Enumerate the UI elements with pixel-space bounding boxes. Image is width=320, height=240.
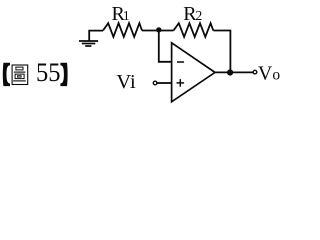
node junction B (output node)	[227, 69, 233, 75]
terminal Vi	[153, 81, 157, 85]
wire R2 to feedback corner	[213, 31, 230, 73]
wire R1 to R2	[142, 30, 174, 32]
wire Vi to plus input	[157, 82, 171, 84]
svg-text:55: 55	[36, 58, 61, 87]
output wire	[215, 71, 253, 73]
resistor R1	[103, 23, 142, 37]
svg-text:R2: R2	[183, 3, 202, 25]
wire inverting input	[159, 31, 172, 62]
ground	[79, 31, 103, 46]
svg-text:Vo: Vo	[258, 62, 280, 84]
op-amp U1	[172, 43, 215, 102]
svg-text:R1: R1	[112, 3, 130, 25]
terminal Vo	[253, 70, 257, 74]
op-amp minus pin label	[177, 61, 184, 63]
caption bracket right	[60, 63, 67, 86]
node junction A (inverting input node)	[156, 27, 161, 32]
resistor R2	[174, 23, 214, 37]
caption glyph 圖	[12, 65, 28, 85]
op-amp plus pin label	[177, 82, 185, 84]
svg-text:Vi: Vi	[116, 71, 136, 93]
caption bracket left	[3, 63, 10, 86]
